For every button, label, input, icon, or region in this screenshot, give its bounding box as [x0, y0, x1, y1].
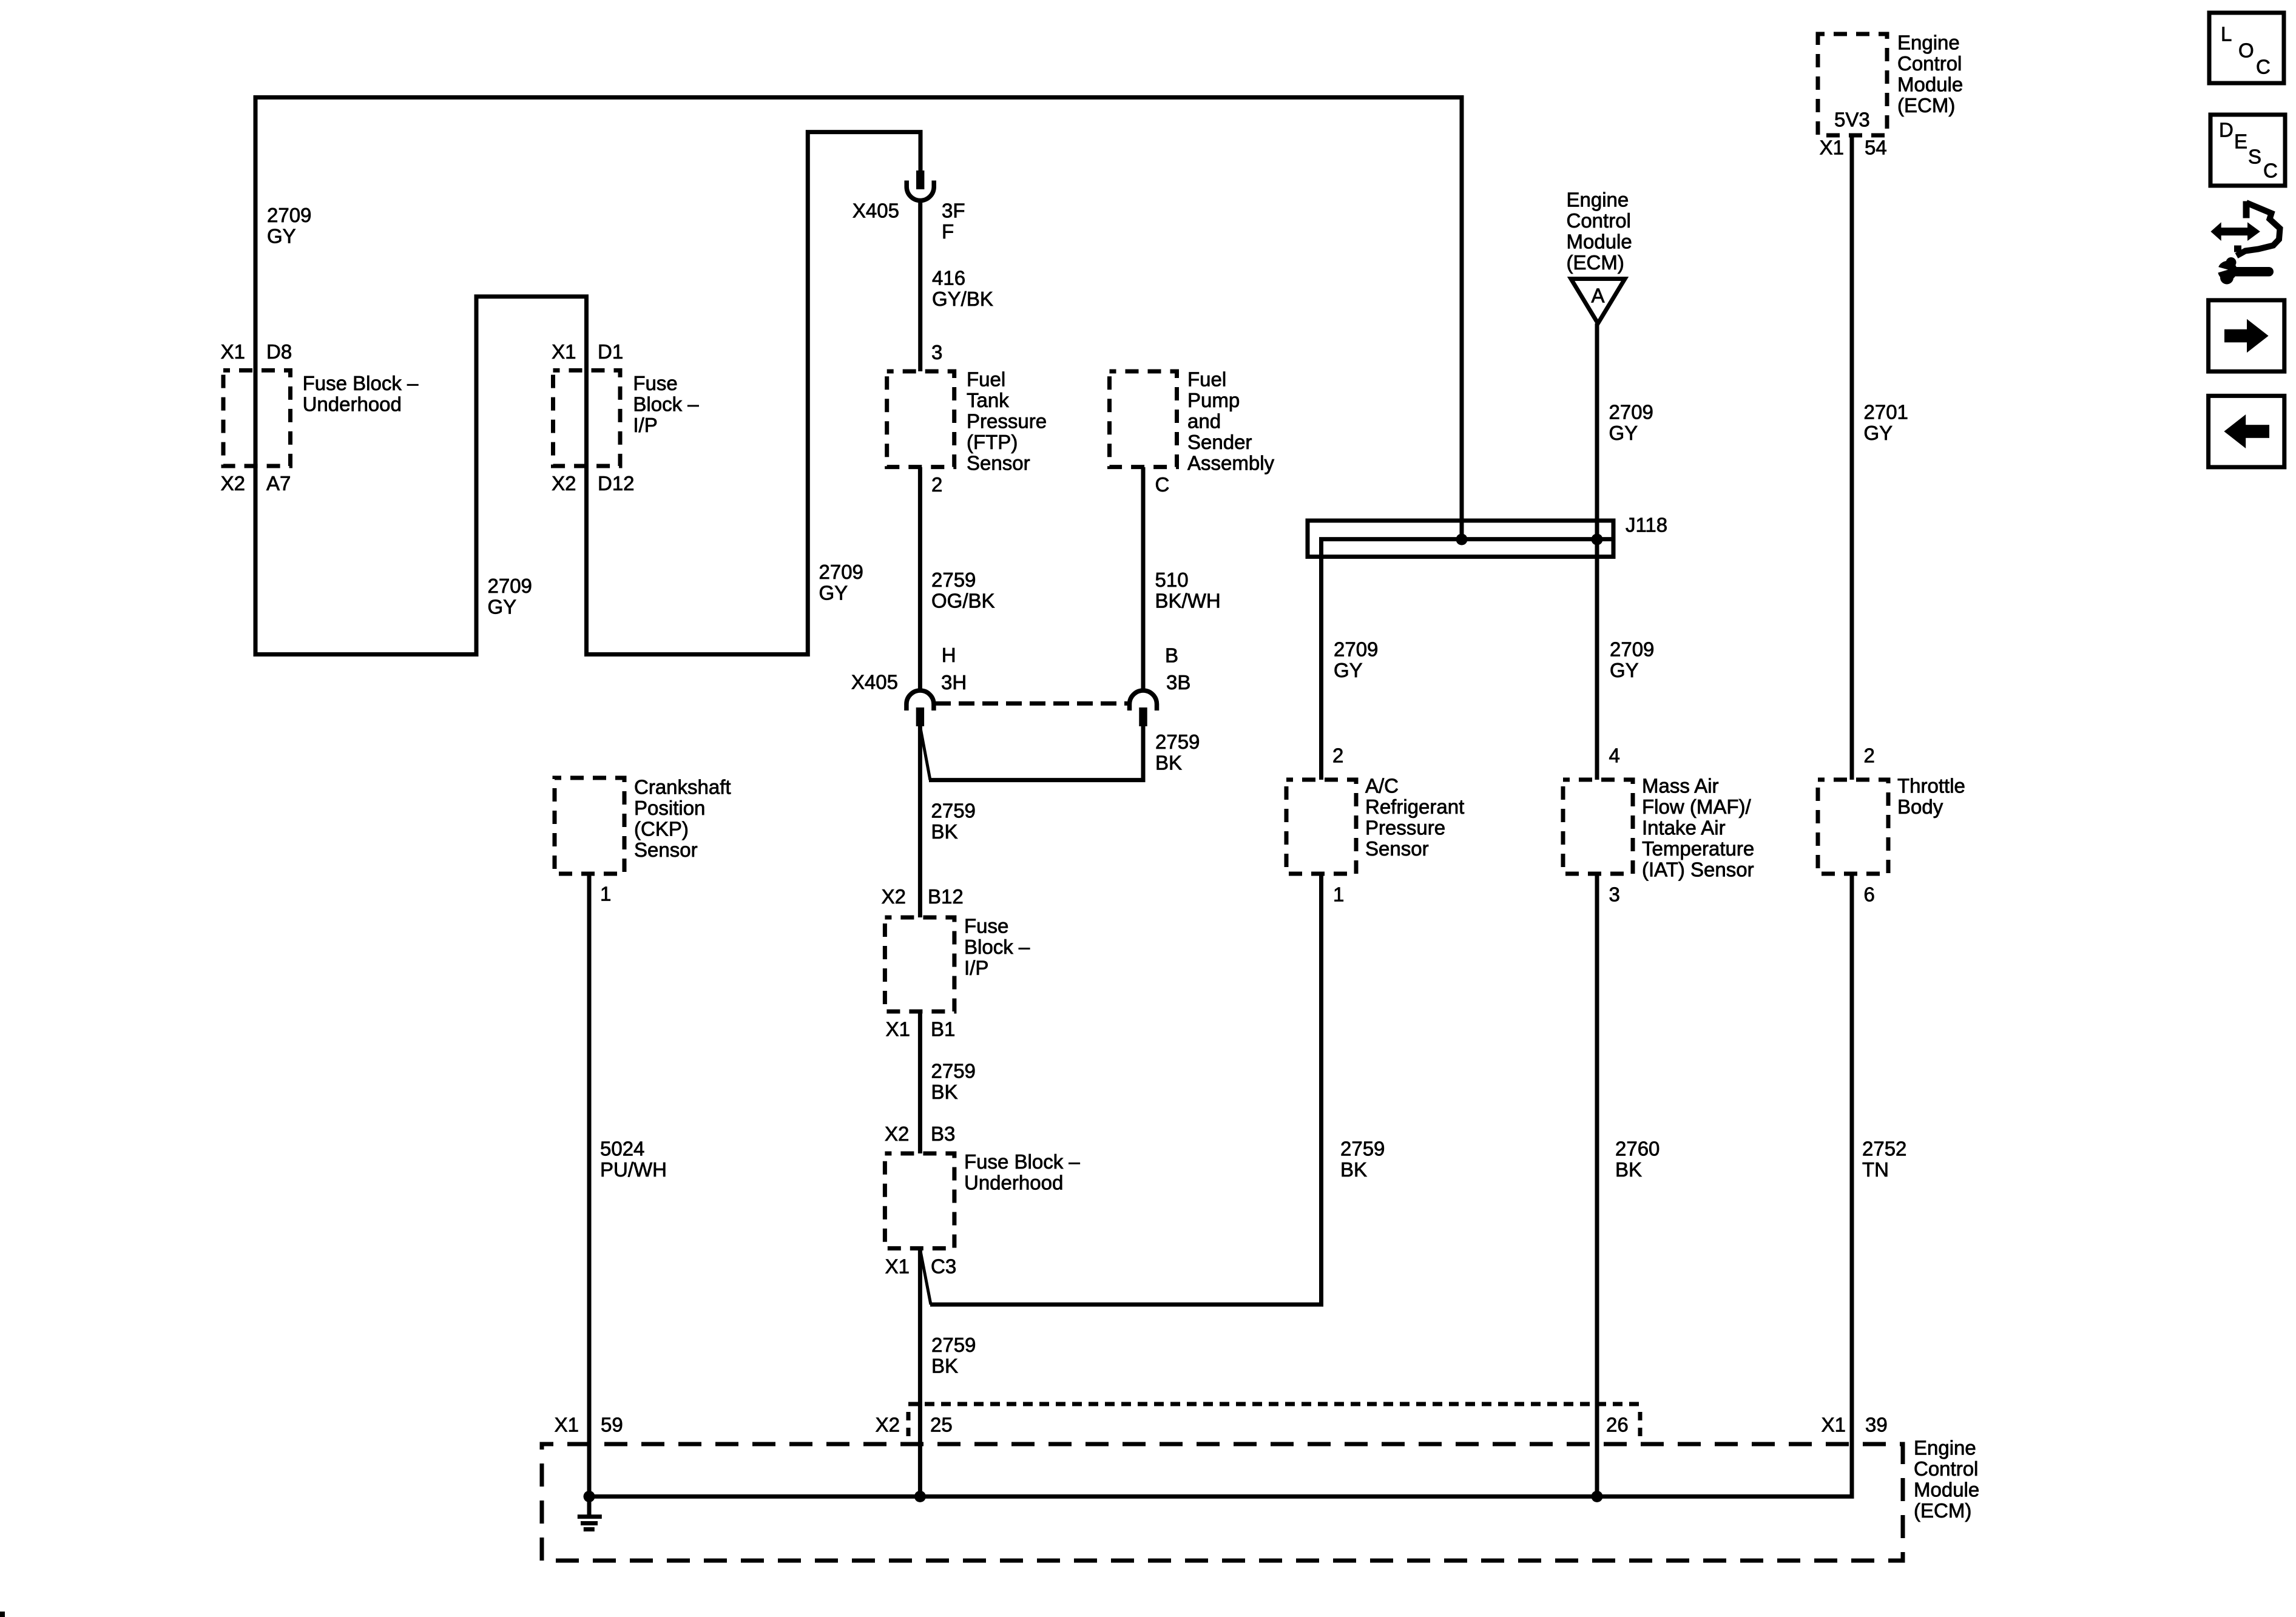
svg-text:2709: 2709	[1609, 401, 1653, 424]
svg-text:Module: Module	[1567, 231, 1632, 253]
svg-text:(IAT) Sensor: (IAT) Sensor	[1642, 859, 1754, 881]
svg-text:OG/BK: OG/BK	[931, 589, 995, 612]
svg-text:Engine: Engine	[1897, 32, 1960, 54]
svg-text:GY: GY	[1864, 422, 1893, 444]
svg-text:Underhood: Underhood	[964, 1172, 1063, 1194]
svg-text:PU/WH: PU/WH	[600, 1158, 667, 1181]
svg-text:BK: BK	[931, 820, 958, 843]
svg-text:X2: X2	[885, 1122, 909, 1145]
svg-text:3: 3	[931, 341, 942, 363]
svg-text:A7: A7	[266, 472, 291, 495]
svg-text:I/P: I/P	[964, 957, 988, 979]
svg-text:25: 25	[930, 1414, 953, 1436]
svg-text:2759: 2759	[931, 799, 976, 822]
svg-text:H: H	[942, 644, 956, 666]
svg-text:Fuel: Fuel	[1187, 368, 1226, 391]
svg-text:2: 2	[1332, 744, 1343, 767]
svg-text:2759: 2759	[931, 1060, 976, 1082]
svg-text:BK: BK	[1615, 1158, 1642, 1181]
svg-text:Control: Control	[1914, 1457, 1978, 1480]
svg-text:S: S	[2248, 146, 2261, 168]
svg-text:1: 1	[600, 883, 611, 905]
svg-text:(ECM): (ECM)	[1914, 1499, 1971, 1522]
svg-text:B12: B12	[928, 885, 964, 908]
svg-text:2701: 2701	[1864, 401, 1908, 424]
svg-text:2: 2	[1864, 744, 1875, 767]
svg-text:Sender: Sender	[1187, 431, 1252, 453]
svg-text:A/C: A/C	[1365, 775, 1399, 797]
svg-text:X1: X1	[886, 1018, 910, 1041]
svg-text:Body: Body	[1897, 795, 1943, 818]
svg-text:Engine: Engine	[1567, 189, 1629, 211]
svg-text:X1: X1	[885, 1255, 910, 1277]
svg-text:Pressure: Pressure	[1365, 817, 1445, 839]
svg-text:Throttle: Throttle	[1897, 775, 1965, 797]
svg-text:Engine: Engine	[1914, 1437, 1976, 1459]
svg-text:2759: 2759	[931, 1334, 976, 1356]
svg-text:Assembly: Assembly	[1187, 452, 1275, 474]
svg-text:2752: 2752	[1862, 1138, 1906, 1160]
svg-text:X2: X2	[221, 472, 245, 495]
svg-text:Pressure: Pressure	[967, 410, 1047, 433]
svg-text:Intake Air: Intake Air	[1642, 817, 1726, 839]
svg-text:X1: X1	[1822, 1414, 1846, 1436]
svg-text:D: D	[2219, 119, 2234, 141]
svg-text:Fuse Block –: Fuse Block –	[303, 372, 419, 394]
svg-text:B: B	[1165, 644, 1178, 667]
svg-text:26: 26	[1606, 1414, 1629, 1436]
svg-text:Tank: Tank	[967, 389, 1009, 411]
svg-text:2760: 2760	[1615, 1138, 1660, 1160]
svg-text:5V3: 5V3	[1834, 109, 1870, 131]
svg-text:X1: X1	[555, 1414, 579, 1436]
svg-text:D12: D12	[598, 472, 635, 495]
svg-text:2759: 2759	[1340, 1138, 1385, 1160]
svg-text:X1: X1	[1820, 137, 1844, 159]
svg-text:416: 416	[932, 267, 965, 289]
svg-text:Control: Control	[1567, 209, 1631, 232]
svg-text:X405: X405	[851, 670, 898, 693]
svg-text:C: C	[1155, 473, 1170, 496]
svg-text:Position: Position	[634, 797, 705, 819]
svg-text:5024: 5024	[600, 1138, 644, 1160]
svg-text:2709: 2709	[819, 561, 863, 583]
svg-text:Temperature: Temperature	[1642, 837, 1754, 860]
svg-text:(FTP): (FTP)	[967, 431, 1018, 453]
svg-text:Sensor: Sensor	[1365, 837, 1429, 860]
svg-text:GY: GY	[1609, 422, 1638, 444]
svg-text:C: C	[2256, 56, 2271, 78]
svg-text:Fuel: Fuel	[967, 368, 1005, 391]
svg-text:X1: X1	[221, 340, 245, 363]
svg-text:2709: 2709	[1610, 638, 1654, 660]
svg-text:B1: B1	[931, 1018, 955, 1041]
svg-text:3H: 3H	[941, 671, 967, 694]
svg-text:Fuse: Fuse	[964, 915, 1008, 937]
svg-text:Control: Control	[1897, 52, 1962, 75]
svg-text:4: 4	[1609, 744, 1620, 767]
svg-text:GY: GY	[1334, 659, 1363, 681]
svg-text:J118: J118	[1626, 514, 1667, 536]
svg-text:Underhood: Underhood	[303, 393, 402, 415]
svg-text:C: C	[2263, 160, 2278, 182]
svg-text:Fuse Block –: Fuse Block –	[964, 1150, 1080, 1173]
svg-text:Module: Module	[1897, 73, 1963, 96]
svg-text:X2: X2	[882, 885, 906, 908]
svg-text:X405: X405	[853, 200, 899, 222]
svg-text:2: 2	[931, 473, 942, 496]
svg-text:GY: GY	[488, 596, 517, 618]
svg-text:(CKP): (CKP)	[634, 818, 689, 840]
svg-text:C3: C3	[931, 1255, 956, 1277]
svg-text:Fuse: Fuse	[633, 372, 677, 394]
svg-text:X2: X2	[552, 472, 576, 495]
svg-text:BK: BK	[931, 1355, 958, 1377]
svg-text:2709: 2709	[267, 204, 311, 226]
svg-text:BK: BK	[931, 1081, 958, 1103]
svg-text:X1: X1	[552, 340, 576, 363]
svg-text:A: A	[1591, 285, 1604, 307]
svg-text:D1: D1	[598, 340, 623, 363]
svg-text:2759: 2759	[1155, 731, 1200, 753]
svg-text:Crankshaft: Crankshaft	[634, 776, 731, 798]
svg-text:Module: Module	[1914, 1479, 1979, 1501]
svg-text:BK/WH: BK/WH	[1155, 589, 1221, 612]
svg-text:Mass Air: Mass Air	[1642, 775, 1719, 797]
svg-text:B3: B3	[931, 1122, 955, 1145]
svg-text:2709: 2709	[1334, 638, 1378, 660]
svg-text:Block –: Block –	[633, 393, 699, 415]
svg-text:Refrigerant: Refrigerant	[1365, 795, 1464, 818]
svg-text:GY: GY	[819, 582, 848, 604]
svg-text:BK: BK	[1155, 752, 1182, 774]
svg-text:6: 6	[1864, 883, 1875, 906]
svg-text:Pump: Pump	[1187, 389, 1240, 411]
svg-text:3B: 3B	[1166, 671, 1190, 694]
svg-text:F: F	[942, 220, 954, 243]
svg-text:2709: 2709	[488, 575, 532, 597]
svg-text:X2: X2	[876, 1414, 900, 1436]
svg-text:3F: 3F	[942, 200, 965, 222]
svg-text:BK: BK	[1340, 1158, 1367, 1181]
svg-text:54: 54	[1865, 137, 1887, 159]
svg-text:Sensor: Sensor	[634, 839, 698, 861]
svg-text:Block –: Block –	[964, 936, 1030, 958]
svg-text:E: E	[2234, 130, 2247, 153]
svg-text:I/P: I/P	[633, 414, 657, 436]
svg-text:and: and	[1187, 410, 1221, 433]
svg-text:3: 3	[1609, 883, 1620, 906]
svg-text:59: 59	[601, 1414, 623, 1436]
svg-text:Sensor: Sensor	[967, 452, 1030, 474]
svg-text:1: 1	[1333, 883, 1344, 906]
svg-text:2759: 2759	[931, 569, 976, 591]
svg-text:D8: D8	[266, 340, 292, 363]
svg-text:(ECM): (ECM)	[1897, 94, 1955, 116]
svg-text:39: 39	[1865, 1414, 1888, 1436]
svg-text:O: O	[2238, 39, 2254, 62]
svg-text:(ECM): (ECM)	[1567, 251, 1624, 274]
svg-text:GY/BK: GY/BK	[932, 288, 993, 310]
svg-text:Flow (MAF)/: Flow (MAF)/	[1642, 795, 1751, 818]
svg-text:TN: TN	[1862, 1158, 1889, 1181]
svg-text:510: 510	[1155, 569, 1189, 591]
svg-text:GY: GY	[1610, 659, 1639, 681]
svg-text:L: L	[2221, 23, 2232, 46]
svg-text:GY: GY	[267, 224, 296, 247]
